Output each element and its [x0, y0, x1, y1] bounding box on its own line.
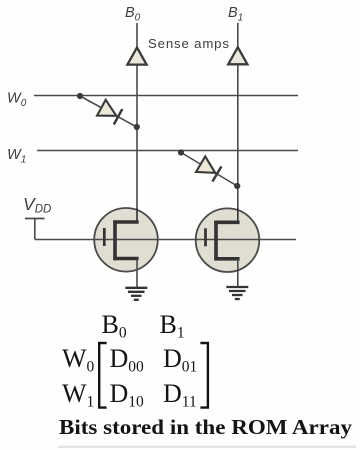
sense amp triangle on B0: [127, 48, 146, 65]
Q1 channel bar: [113, 220, 117, 260]
wire word line W0: [34, 95, 298, 97]
wire bit line B1 top stub: [237, 23, 239, 48]
wire bit line B1 main: [237, 65, 239, 223]
svg-text:Sense amps: Sense amps: [148, 36, 230, 51]
wire diagonal diode link row1: [181, 153, 237, 187]
transistor Q1 internals: [104, 208, 138, 260]
Q2 source arm: [214, 257, 239, 261]
diode D1: [97, 100, 122, 125]
transistor Q1 body circle: [94, 208, 158, 272]
wire bit line B0 main: [136, 65, 138, 223]
wire word line W1: [37, 150, 298, 152]
Q1 gate bar: [103, 228, 106, 246]
VDD terminal bar: [25, 218, 45, 220]
wire diagonal diode link row0: [80, 96, 137, 127]
Q2 drain arm: [216, 208, 238, 222]
wire Q1 source to ground: [136, 259, 138, 288]
Q1 source arm: [113, 257, 138, 261]
wire Q2 source to ground: [237, 259, 239, 287]
transistor Q2 body circle: [196, 208, 260, 272]
matrix left bracket: [99, 343, 106, 408]
wire VDD stem: [34, 219, 36, 240]
Q2 gate bar: [204, 228, 207, 246]
matrix right bracket: [200, 343, 208, 408]
bottom faint streak artifact: [58, 446, 356, 448]
sense amp triangle on B1: [228, 47, 247, 64]
wire VDD rail: [35, 239, 296, 241]
svg-text:Bits stored in the ROM Array: Bits stored in the ROM Array: [59, 415, 352, 439]
Q1 drain arm: [115, 208, 137, 222]
node junction on B0: [134, 124, 140, 130]
wire bit line B0 top stub: [136, 23, 138, 48]
ground GND1: [125, 288, 147, 300]
node junction on W1: [178, 149, 184, 155]
Q2 channel bar: [214, 221, 218, 261]
diode D2: [196, 156, 222, 181]
node junction on W0: [77, 93, 83, 99]
ground GND2: [226, 287, 248, 299]
transistor Q2 internals: [206, 208, 240, 261]
node junction on B1: [234, 183, 240, 189]
